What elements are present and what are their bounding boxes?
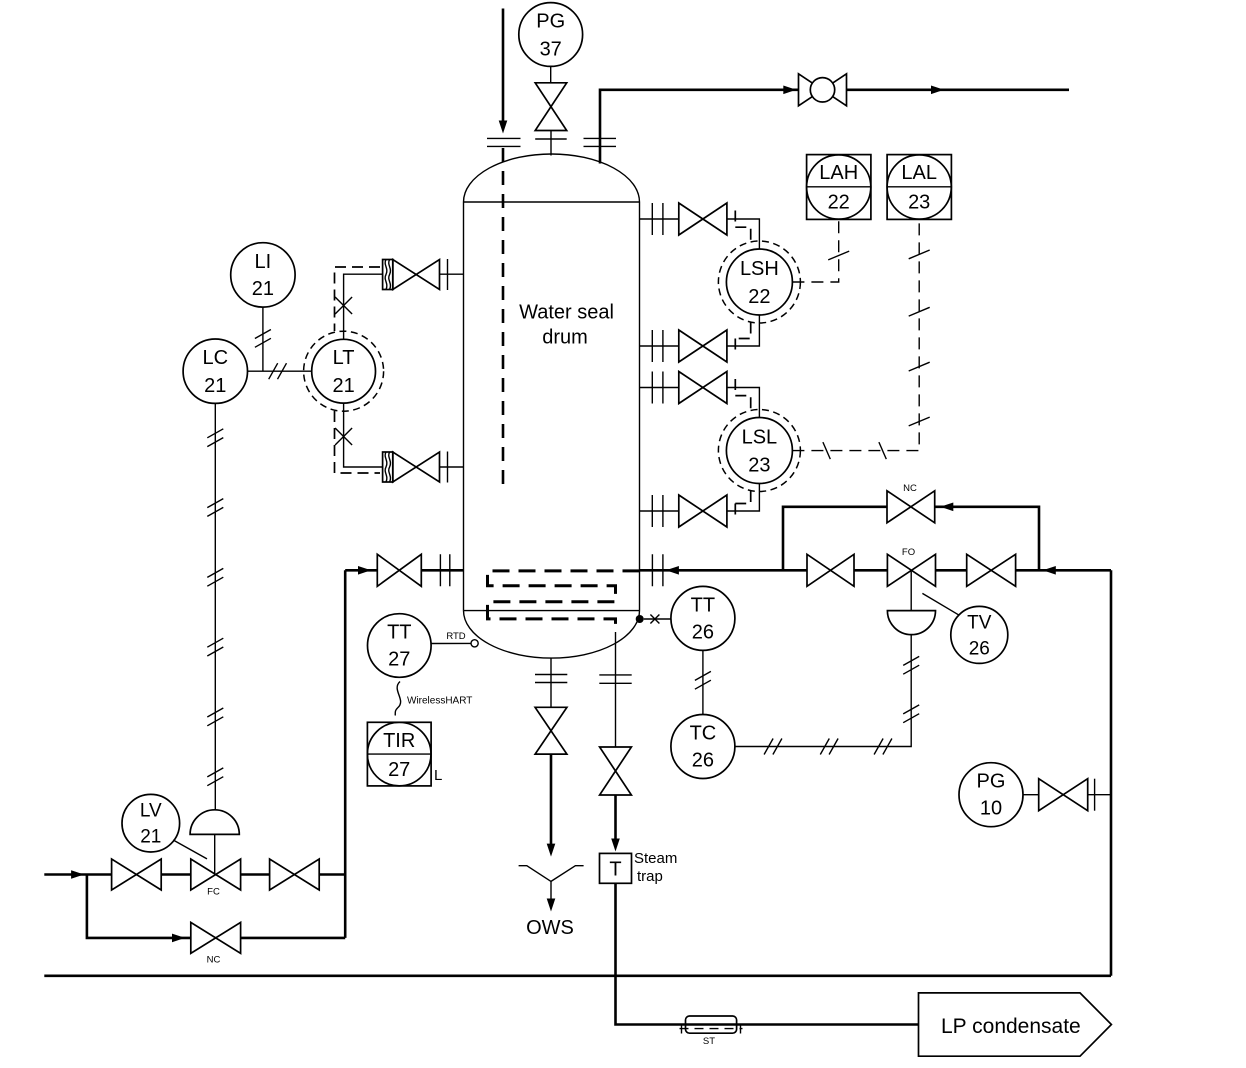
svg-text:WirelessHART: WirelessHART xyxy=(407,696,472,707)
wire TT27 to RTD element xyxy=(432,642,471,644)
svg-text:TV: TV xyxy=(967,612,992,633)
svg-text:27: 27 xyxy=(388,759,410,781)
svg-text:26: 26 xyxy=(969,638,990,659)
wire vapour outlet riser (thick) xyxy=(600,90,1069,164)
instrument PG 37 xyxy=(519,3,583,67)
wire left main riser (thick) xyxy=(344,570,347,938)
svg-text:LAH: LAH xyxy=(819,162,858,184)
valve lower left level tap (gate with hatched end) xyxy=(383,452,440,482)
steam heating coil (dashed serpentine) xyxy=(488,571,640,632)
flange pair drain 1 xyxy=(535,675,567,683)
vessel Water seal drum shell xyxy=(464,154,640,658)
actuator LV-21 diaphragm xyxy=(190,810,239,875)
valve left main isolation xyxy=(377,554,421,586)
wire TT26 to TC26 xyxy=(702,650,704,714)
flange bar PG10 xyxy=(1094,779,1096,811)
valve ball valve on vapour line xyxy=(799,74,847,106)
svg-text:L: L xyxy=(434,767,442,784)
svg-text:LSH: LSH xyxy=(740,258,779,280)
wire drain 1 to funnel (thick) xyxy=(550,754,553,845)
svg-text:37: 37 xyxy=(540,39,562,61)
svg-text:23: 23 xyxy=(908,192,930,214)
signal line LSH to LAH (dashed) xyxy=(792,219,838,282)
actuator TV-26 diaphragm xyxy=(887,571,935,634)
flange bar center nozzle xyxy=(535,138,567,140)
right level nozzle row 3 xyxy=(640,372,760,418)
svg-text:21: 21 xyxy=(204,375,226,397)
svg-text:26: 26 xyxy=(692,750,714,772)
slashes on LSL-LAL signal (horizontal) xyxy=(823,442,886,459)
wire drain 2 to steam trap (thick) xyxy=(614,795,617,846)
instrument LT 21 (with dashed seal circle) xyxy=(304,331,384,411)
flange bar upper left nozzle xyxy=(447,259,449,290)
instrument TV 26 xyxy=(951,606,1008,663)
double-slash marks on TC26 signal horizontal xyxy=(764,739,892,755)
arrow bypass flow right xyxy=(172,934,185,943)
flange pair inlet nozzle xyxy=(487,138,521,146)
arrow left main flow right xyxy=(358,566,371,575)
svg-text:27: 27 xyxy=(388,649,410,671)
slash on LSH-LAH signal xyxy=(828,251,849,260)
right level nozzle row 4 xyxy=(640,484,760,528)
svg-text:LC: LC xyxy=(203,347,229,369)
wire funnel stem xyxy=(550,881,552,899)
arrow top line flow right (1) xyxy=(783,86,796,95)
instrument LAH 22 (shared display square) xyxy=(807,155,871,220)
instrument PG 10 xyxy=(959,763,1023,827)
arrow drain 1 flow down xyxy=(547,844,556,857)
svg-text:26: 26 xyxy=(692,621,714,643)
svg-text:LAL: LAL xyxy=(901,162,937,184)
wire LT upper impulse line xyxy=(344,274,383,339)
wire PG10 to downcomer xyxy=(1088,794,1111,796)
valve NC bypass (feed) xyxy=(191,922,241,953)
strainer ST on condensate line xyxy=(680,1016,743,1034)
svg-text:trap: trap xyxy=(637,868,663,885)
svg-text:drum: drum xyxy=(542,327,588,349)
svg-text:T: T xyxy=(609,858,621,880)
flange pair right top nozzle xyxy=(584,138,617,146)
instrument TT 26 xyxy=(671,586,735,650)
node RTD element circle xyxy=(471,640,478,647)
svg-text:ST: ST xyxy=(703,1036,715,1047)
valve right main isolation B xyxy=(967,554,1016,586)
wire LT lower impulse line xyxy=(344,403,383,467)
svg-text:LT: LT xyxy=(333,347,355,369)
arrow inlet flow down xyxy=(499,121,508,134)
wire right downcomer (thick) xyxy=(1110,570,1113,976)
double-slash marks on LC-LV line xyxy=(207,429,223,786)
valve right main isolation A xyxy=(807,554,854,586)
arrow NC bypass flow left xyxy=(940,503,953,512)
arrow right main flow left (2) xyxy=(1043,566,1056,575)
arrow drain 2 flow down xyxy=(611,839,620,852)
svg-text:FO: FO xyxy=(902,547,915,558)
svg-text:22: 22 xyxy=(748,286,770,308)
wire drain 1 upper stub xyxy=(550,658,552,707)
wire steam trap outlet (thick) xyxy=(616,883,919,1024)
wire feed bypass loop (thick) xyxy=(87,875,345,938)
svg-text:TT: TT xyxy=(691,594,715,616)
offpage flag LP condensate xyxy=(919,993,1112,1056)
double-slash marks on TV26 signal vertical xyxy=(903,656,919,722)
svg-text:RTD: RTD xyxy=(446,631,465,642)
instrument TC 26 xyxy=(671,715,735,779)
wire LI drop line xyxy=(262,307,264,371)
capillary jog row 4 (dashed) xyxy=(735,491,750,520)
node vessel tap junction dot xyxy=(636,615,644,623)
wire valve to nozzle xyxy=(550,131,552,156)
svg-text:10: 10 xyxy=(980,798,1002,820)
dip tube (dashed) inside drum xyxy=(502,148,505,491)
svg-text:Steam: Steam xyxy=(634,850,677,867)
svg-text:FC: FC xyxy=(207,887,220,898)
x-mark on TT26 tap xyxy=(650,615,659,624)
svg-text:PG: PG xyxy=(977,771,1006,793)
right level nozzle row 1 xyxy=(640,203,760,249)
svg-text:22: 22 xyxy=(828,192,850,214)
valve feed isolation 2 xyxy=(270,859,320,890)
funnel open drain xyxy=(519,866,584,882)
flange pair left bottom nozzle xyxy=(440,554,449,586)
instrument TT 27 xyxy=(368,614,432,678)
slashes on LSL-LAL signal (vertical) xyxy=(909,250,930,426)
instrument LAL 23 (shared display square) xyxy=(887,155,951,220)
double-slash on TT26-TC26 link xyxy=(695,671,711,689)
wire left main line into drum (thick) xyxy=(345,569,463,572)
x-mark on upper impulse line xyxy=(335,297,352,314)
steam trap T box xyxy=(600,853,632,883)
wire NC bypass loop (thick) xyxy=(783,507,1039,571)
wire feed water line (thick) xyxy=(44,873,345,876)
svg-text:LSL: LSL xyxy=(742,427,778,449)
arrow funnel to OWS xyxy=(547,899,556,912)
capillary jog row 3 (dashed) xyxy=(735,379,750,410)
instrument LI 21 xyxy=(231,243,295,307)
double-slash on LC-LT link xyxy=(269,363,287,379)
svg-text:LV: LV xyxy=(140,801,162,822)
svg-text:21: 21 xyxy=(252,278,274,300)
valve TV-26 control valve body (FO) xyxy=(887,554,935,586)
capillary jog row 1 (dashed) xyxy=(735,211,750,242)
valve drain 1 (vertical) xyxy=(535,707,567,754)
flange bar lower left nozzle xyxy=(447,452,449,483)
double-slash on LI line xyxy=(255,330,271,348)
svg-text:TIR: TIR xyxy=(383,730,415,752)
svg-text:LI: LI xyxy=(255,251,272,273)
wire PG37 stem xyxy=(550,66,552,82)
wire bottom header line (thick) xyxy=(44,974,1111,977)
svg-text:NC: NC xyxy=(207,955,221,966)
svg-text:TT: TT xyxy=(387,622,411,644)
instrument LSH 22 (dashed seal circle) xyxy=(718,241,800,323)
instrument LSL 23 (dashed seal circle) xyxy=(718,410,800,492)
svg-text:OWS: OWS xyxy=(526,917,574,939)
wire WirelessHART squiggle xyxy=(395,682,400,716)
wire PG10 stub xyxy=(1023,794,1039,796)
arrow feed flow right xyxy=(71,870,84,879)
valve PG10 isolation xyxy=(1039,779,1088,811)
wire right main line (thick) xyxy=(640,569,1112,572)
wire inlet line (top left, thick, into drum) xyxy=(502,9,505,123)
wire TV26 leader line xyxy=(922,593,958,614)
wire drain 2 upper stub xyxy=(615,632,617,747)
valve feed isolation 1 xyxy=(112,859,162,890)
wire upper left nozzle xyxy=(440,273,464,275)
flange pair right bottom nozzle xyxy=(652,554,663,586)
svg-text:LP condensate: LP condensate xyxy=(941,1015,1081,1038)
svg-text:21: 21 xyxy=(332,375,354,397)
svg-text:Water seal: Water seal xyxy=(519,302,614,324)
flange pair drain 2 xyxy=(599,675,631,683)
valve upper left level tap (gate with hatched end) xyxy=(383,260,440,290)
wire LV21 leader line xyxy=(173,840,207,859)
svg-text:21: 21 xyxy=(140,827,161,848)
arrow top line flow right (2) xyxy=(931,86,944,95)
instrument LV 21 xyxy=(122,794,180,852)
right level nozzle row 2 xyxy=(640,315,760,362)
valve LV-21 control valve body (FC) xyxy=(191,859,241,890)
valve vent (vertical) below PG37 xyxy=(535,83,567,131)
arrow right main flow left (into drum) xyxy=(666,566,679,575)
valve drain 2 (vertical) xyxy=(600,747,632,795)
instrument TIR 27 (shared display square) xyxy=(367,722,431,786)
signal line LSL to LAL (dashed) xyxy=(792,219,919,450)
wire TV26 signal drop xyxy=(735,635,911,747)
x-mark on lower impulse line xyxy=(335,428,352,445)
valve NC bypass xyxy=(887,491,935,523)
capillary bracket (dashed) around LT impulse lines xyxy=(335,267,381,473)
wire lower left nozzle xyxy=(440,466,464,468)
capillary jog row 2 (dashed) xyxy=(735,323,750,355)
wire vessel tap to TT26 xyxy=(644,618,671,620)
svg-text:PG: PG xyxy=(536,11,565,33)
wire LC to LV signal line xyxy=(214,403,216,809)
svg-text:23: 23 xyxy=(748,455,770,477)
instrument LC 21 xyxy=(183,339,247,403)
svg-text:NC: NC xyxy=(903,483,917,494)
svg-text:TC: TC xyxy=(690,723,717,745)
wire LC to LT link xyxy=(248,370,312,372)
